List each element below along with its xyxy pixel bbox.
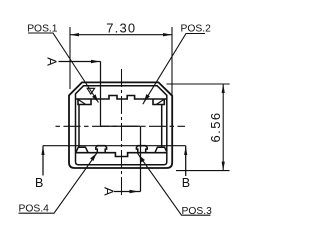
dim arrow 7.30 left <box>70 33 79 36</box>
vertical centerline <box>121 69 123 197</box>
svg-text:6.56: 6.56 <box>208 112 223 143</box>
section line A-A step (horizontal middle) <box>101 125 141 127</box>
dim arrow 6.56 top <box>222 84 225 93</box>
extension line left (7.30) <box>69 27 71 89</box>
section line A-A step (vertical upper) <box>100 62 102 127</box>
leader arrow POS.1 <box>92 94 98 102</box>
svg-text:A: A <box>45 57 60 66</box>
dim arrow 7.30 right <box>163 33 172 36</box>
section arrow A top <box>91 60 100 63</box>
bottom wall castellated edge <box>76 153 167 157</box>
corner block bottom-right <box>155 147 167 152</box>
section line B-B <box>43 145 186 147</box>
svg-text:7.30: 7.30 <box>106 21 136 36</box>
section stem B left <box>42 146 44 176</box>
top wall castellated edge <box>76 96 167 100</box>
inner opening outline <box>76 86 167 165</box>
dimension line 7.30 <box>70 34 172 36</box>
section line A-A step (vertical lower) <box>140 126 142 191</box>
extension line top (6.56) <box>167 83 230 85</box>
contact block top-left <box>78 99 91 105</box>
leader arrow POS.4 <box>90 153 96 161</box>
leader POS.1 <box>28 33 99 103</box>
dim arrow 6.56 bottom <box>222 162 225 171</box>
svg-text:B: B <box>35 176 43 190</box>
leader POS.3 <box>138 153 211 215</box>
section arrow B left <box>41 146 44 155</box>
svg-text:A: A <box>101 187 116 196</box>
section arrow B right <box>184 146 187 155</box>
bevel top-right block <box>157 99 165 104</box>
section line A-A top arm <box>59 61 101 63</box>
svg-text:POS.2: POS.2 <box>181 23 212 34</box>
outer shell outline <box>69 82 172 168</box>
bevel top-left block <box>78 99 86 104</box>
extension line right (7.30) <box>171 27 173 95</box>
contact bottom-left <box>96 146 107 153</box>
section stem B right <box>185 146 187 176</box>
section arrow A bottom <box>130 190 139 193</box>
leader arrow POS.2 <box>144 94 150 102</box>
contact bottom-right <box>136 146 147 153</box>
cavity floor left edge <box>78 105 80 148</box>
cavity floor right edge <box>161 105 163 148</box>
leader POS.4 <box>19 152 98 213</box>
contact block top-right <box>153 99 164 105</box>
corner block bottom-left <box>76 147 88 152</box>
leader POS.2 <box>143 34 205 105</box>
horizontal centerline <box>56 125 186 127</box>
svg-text:B: B <box>182 176 190 190</box>
hollow triangle on POS.1 leader <box>87 88 94 94</box>
section line A-A bottom arm <box>114 191 141 193</box>
extension line bottom (6.56) <box>176 170 230 172</box>
dimension line 6.56 <box>222 84 224 171</box>
leader arrow POS.3 <box>139 155 145 163</box>
